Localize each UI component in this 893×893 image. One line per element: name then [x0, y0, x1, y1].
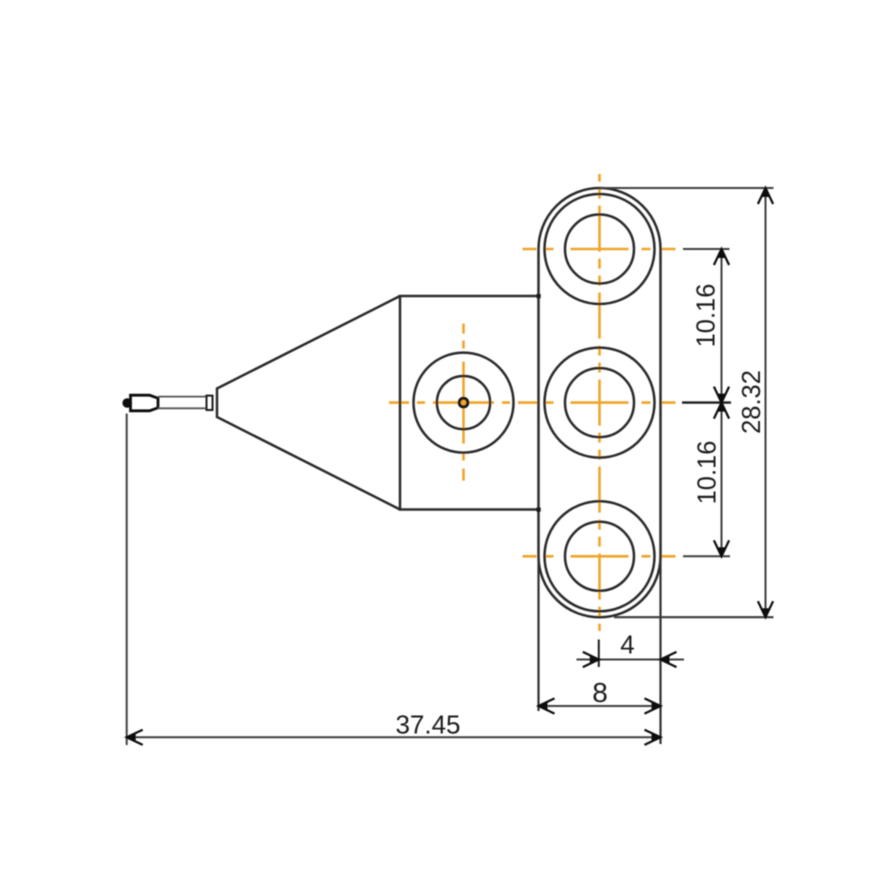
arrow 4 right (pointing left): [661, 652, 677, 667]
dimension 28.32 line: [765, 188, 767, 617]
arrow 4 left (pointing right): [583, 652, 599, 667]
top hole boss circle: [545, 194, 655, 304]
arrow 37.45 right: [645, 730, 661, 745]
SMA face inner circle: [437, 376, 490, 429]
arrow 28.32 bottom: [758, 601, 773, 617]
probe shaft: [158, 397, 207, 409]
probe tip cylinder: [131, 395, 159, 411]
extension line 10.16 bottom: [683, 555, 730, 557]
SMA center pin dot: [459, 398, 468, 407]
svg-text:37.45: 37.45: [395, 710, 460, 740]
arrow 10.16 lower top: [714, 403, 729, 419]
arrow 28.32 top: [758, 188, 773, 204]
svg-text:4: 4: [620, 630, 634, 660]
middle hole: [565, 368, 634, 437]
centerline horizontal bottom hole: [523, 555, 676, 558]
dimension 37.45 line: [127, 736, 661, 738]
centerline vertical of hole column: [598, 174, 601, 631]
arrow 8 right: [645, 698, 661, 713]
middle hole boss circle: [545, 348, 655, 458]
top hole: [565, 215, 634, 284]
arrow 10.16 lower bottom: [714, 540, 729, 556]
dimension 4 tick: [598, 640, 600, 668]
extension line 28.32 bottom: [614, 616, 774, 618]
extension line left column below block: [537, 556, 539, 711]
centerline horizontal top hole: [523, 248, 676, 251]
svg-text:10.16: 10.16: [693, 284, 721, 348]
centerline horizontal middle row (through SMA face and middle hole): [389, 401, 676, 404]
probe ball tip: [122, 398, 132, 408]
dimension 8 line: [539, 705, 661, 707]
extension line right column below block: [659, 556, 661, 744]
extension line 28.32 top: [600, 187, 774, 189]
extension line 10.16 middle: [682, 401, 731, 403]
flange rectangle: [400, 296, 539, 510]
arrow 10.16 upper bottom: [714, 387, 729, 403]
arrow 8 left: [539, 698, 555, 713]
arrow 37.45 left: [127, 730, 143, 745]
cone body: [217, 296, 400, 510]
stadium body outline: [539, 188, 661, 617]
extension line 10.16 top: [683, 248, 730, 250]
svg-text:8: 8: [592, 677, 608, 708]
dimension 10.16 line: [721, 249, 723, 556]
bottom hole boss circle: [545, 501, 655, 611]
svg-text:10.16: 10.16: [694, 441, 722, 505]
svg-text:28.32: 28.32: [738, 370, 766, 434]
dimension 4 line: [577, 659, 685, 661]
bottom hole: [565, 522, 634, 591]
probe collar: [207, 396, 213, 410]
SMA face outer circle: [414, 353, 514, 453]
junction dot bottom: [537, 508, 541, 512]
centerline vertical of SMA face: [462, 324, 465, 481]
arrow 10.16 upper top: [714, 249, 729, 265]
extension line left of 37.45: [126, 414, 128, 746]
junction dot top: [537, 294, 541, 298]
